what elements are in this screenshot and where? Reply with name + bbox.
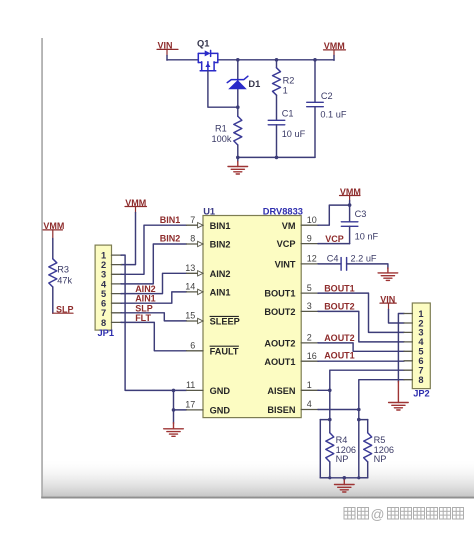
svg-text:C2: C2 xyxy=(321,91,333,101)
svg-text:NP: NP xyxy=(374,454,387,464)
node junction R5 bottom xyxy=(357,476,360,479)
svg-text:BISEN: BISEN xyxy=(267,405,295,415)
wire R4/R5 bottom rail xyxy=(320,477,367,479)
svg-text:FAULT: FAULT xyxy=(210,346,239,356)
resistor R2 xyxy=(276,60,278,68)
capacitor C1 xyxy=(268,119,285,121)
node junction ground stub xyxy=(343,476,347,480)
U1 right pin stubs with numbers xyxy=(301,215,318,410)
JP1 pin numbers 1-8 xyxy=(101,251,107,328)
node junction VMM/C3 xyxy=(348,203,352,207)
wire AISEN up to JP2-7 xyxy=(330,370,404,390)
svg-text:3: 3 xyxy=(101,270,106,280)
capacitor C3 xyxy=(349,205,351,222)
wire top rail Q1 drain to VMM xyxy=(218,59,334,61)
wire AISEN down to R4 xyxy=(329,390,331,419)
wire AISEN pin 1 junction xyxy=(318,389,330,391)
svg-text:Q1: Q1 xyxy=(197,39,209,49)
diode D1 (zener) xyxy=(227,76,248,89)
svg-text:AOUT2: AOUT2 xyxy=(324,333,355,343)
capacitor C4 xyxy=(340,258,342,271)
svg-text:C3: C3 xyxy=(355,209,367,219)
node junction R5 top xyxy=(357,418,361,422)
svg-text:GND: GND xyxy=(210,386,231,396)
node junction AISEN xyxy=(328,389,332,393)
svg-text:SLP: SLP xyxy=(135,303,153,313)
svg-text:R4: R4 xyxy=(336,435,348,445)
wire GND junction down to pin 17 xyxy=(173,390,175,410)
svg-text:BOUT1: BOUT1 xyxy=(324,284,355,294)
wire VCP pin 9 to C3 xyxy=(318,243,350,245)
wire D1 branch xyxy=(237,60,239,107)
resistor R3 xyxy=(49,259,57,287)
JP2 pin stubs xyxy=(404,314,412,380)
node junction gate/D1/R1 xyxy=(236,105,240,109)
wire JP1-8 to FAULT (U1 pin 6) xyxy=(121,322,187,350)
svg-text:47k: 47k xyxy=(57,276,72,286)
wire top rail VIN to Q1 source xyxy=(167,59,198,61)
ground below R4 R5 xyxy=(343,478,345,481)
svg-text:C1: C1 xyxy=(282,109,294,119)
svg-text:VM: VM xyxy=(282,221,296,231)
wire C1 bottom xyxy=(276,125,278,158)
svg-text:DRV8833: DRV8833 xyxy=(263,206,303,216)
svg-text:BOUT2: BOUT2 xyxy=(264,307,295,317)
node junction BISEN xyxy=(357,408,361,412)
svg-text:6: 6 xyxy=(101,299,106,309)
svg-text:AIN1: AIN1 xyxy=(210,288,231,298)
U1 right pin names xyxy=(264,221,296,415)
wire JP1-6 to AIN1 (U1 pin 14) xyxy=(121,292,187,303)
svg-text:3: 3 xyxy=(418,328,423,338)
svg-text:13: 13 xyxy=(185,263,195,273)
svg-text:2.2 uF: 2.2 uF xyxy=(351,254,377,264)
svg-text:1: 1 xyxy=(101,251,106,261)
svg-text:8: 8 xyxy=(101,318,106,328)
svg-text:4: 4 xyxy=(307,399,312,409)
svg-text:BOUT1: BOUT1 xyxy=(264,289,295,299)
svg-text:9: 9 xyxy=(307,233,312,243)
node junction C1 bottom xyxy=(275,156,279,160)
U1 left pin stubs with numbers xyxy=(185,215,203,410)
ground below JP2 xyxy=(397,382,399,403)
svg-text:AOUT2: AOUT2 xyxy=(264,339,295,349)
svg-text:BIN2: BIN2 xyxy=(210,240,231,250)
svg-text:2: 2 xyxy=(101,260,106,270)
wire VINT pin 12 to C4 xyxy=(318,263,341,265)
connector JP1 xyxy=(95,245,111,330)
node junction rail at C2 xyxy=(313,58,317,62)
U1 left pin names xyxy=(210,221,240,416)
svg-text:JP1: JP1 xyxy=(98,328,115,338)
node junction rail at R2 xyxy=(275,58,279,62)
resistor R5 with parallel wire xyxy=(359,419,368,421)
node junction R1 bottom xyxy=(236,156,240,160)
transistor Q1 (P-MOSFET) xyxy=(198,50,218,70)
svg-text:R2: R2 xyxy=(283,75,295,85)
svg-text:BOUT2: BOUT2 xyxy=(324,301,355,311)
svg-text:AOUT1: AOUT1 xyxy=(264,357,295,367)
svg-text:10 uF: 10 uF xyxy=(282,129,306,139)
wire VIN to JP2-2 xyxy=(388,303,390,310)
svg-text:100k: 100k xyxy=(212,134,232,144)
svg-text:VCP: VCP xyxy=(325,234,344,244)
svg-text:17: 17 xyxy=(185,400,195,410)
resistor R1 xyxy=(237,107,239,116)
wire VMM stub right xyxy=(349,196,351,202)
svg-text:7: 7 xyxy=(101,308,106,318)
wire AOUT2 pin 2 to JP2-5 xyxy=(318,343,404,351)
wire C4 to ground xyxy=(347,264,388,269)
wire Q1 gate down and right to node xyxy=(208,71,238,107)
svg-text:7: 7 xyxy=(190,215,195,225)
svg-text:8: 8 xyxy=(418,375,423,385)
ground at C4 xyxy=(387,268,389,273)
wire BOUT1 pin 5 to JP2-3 xyxy=(318,293,404,332)
svg-text:R1: R1 xyxy=(215,123,227,133)
wire VM pin 10 to VMM xyxy=(318,205,350,225)
svg-text:3: 3 xyxy=(307,301,312,311)
svg-text:AIN2: AIN2 xyxy=(135,284,156,294)
svg-text:12: 12 xyxy=(307,254,317,264)
wire BISEN pin 4 junction xyxy=(318,409,359,411)
svg-text:R3: R3 xyxy=(57,265,69,275)
svg-text:NP: NP xyxy=(336,454,349,464)
svg-text:1: 1 xyxy=(283,86,288,96)
svg-text:10: 10 xyxy=(307,215,317,225)
op-amp U1 DRV8833 IC body xyxy=(203,216,301,418)
svg-text:0.1 uF: 0.1 uF xyxy=(320,109,346,119)
svg-text:6: 6 xyxy=(190,341,195,351)
JP1 pin stubs xyxy=(112,255,122,322)
svg-text:AIN1: AIN1 xyxy=(135,294,156,304)
svg-text:BIN1: BIN1 xyxy=(160,215,181,225)
wire VMM to R3 xyxy=(52,230,54,239)
svg-text:BIN2: BIN2 xyxy=(160,234,181,244)
wire VMM down to JP1 pin 2 xyxy=(135,207,137,214)
svg-text:11: 11 xyxy=(186,380,195,390)
svg-text:5: 5 xyxy=(101,289,106,299)
wire JP1-4 to BIN2 (U1 pin 8) xyxy=(121,244,187,284)
node junction GND wire pin 17 xyxy=(172,408,176,412)
capacitor C2 xyxy=(314,60,316,102)
node junction R4 top xyxy=(328,418,332,422)
wire AOUT1 pin 16 to JP2-6 xyxy=(318,360,404,362)
svg-text:R5: R5 xyxy=(374,435,386,445)
svg-text:16: 16 xyxy=(307,351,317,361)
svg-text:AISEN: AISEN xyxy=(267,386,295,396)
wire VIN stub xyxy=(166,49,168,56)
watermark 知乎 @雕爷学编程 xyxy=(344,508,464,520)
svg-text:8: 8 xyxy=(190,234,195,244)
bottom page border line xyxy=(41,497,474,499)
JP2 pin numbers 1-8 xyxy=(418,309,424,385)
svg-text:VINT: VINT xyxy=(275,260,296,270)
connector JP2 xyxy=(412,303,430,389)
bottom shading gradient of page xyxy=(43,458,474,497)
svg-text:2: 2 xyxy=(307,333,312,343)
resistor R4 with parallel wire xyxy=(320,419,330,421)
svg-text:10 nF: 10 nF xyxy=(355,231,379,241)
node junction R4 bottom xyxy=(328,476,331,479)
svg-text:14: 14 xyxy=(185,282,195,292)
svg-text:FLT: FLT xyxy=(135,313,151,323)
svg-text:JP2: JP2 xyxy=(413,388,430,398)
svg-text:7: 7 xyxy=(418,366,423,376)
ground below R1 xyxy=(237,157,239,162)
wire JP1-3 to BIN1 (U1 pin 7) xyxy=(121,225,187,274)
wire JP1-5 to AIN2 (U1 pin 13) xyxy=(121,273,187,293)
wire JP2-1 to ground xyxy=(398,314,404,383)
svg-text:4: 4 xyxy=(101,279,107,289)
svg-text:AOUT1: AOUT1 xyxy=(324,350,355,360)
wire BISEN down to R5 xyxy=(358,410,360,420)
node junction rail at D1 xyxy=(236,58,240,62)
svg-text:U1: U1 xyxy=(203,206,215,216)
node junction GND wire pin 11 xyxy=(172,389,176,393)
svg-text:SLEEP: SLEEP xyxy=(210,317,240,327)
wire JP1-7 to SLEEP (U1 pin 15) xyxy=(121,313,187,321)
wire BOUT2 pin 3 to JP2-4 xyxy=(318,311,404,342)
left page border line xyxy=(41,38,43,498)
wire VMM stub (top) xyxy=(333,50,335,56)
svg-text:GND: GND xyxy=(210,406,231,416)
svg-text:15: 15 xyxy=(185,311,195,321)
wire BISEN up to JP2-8 xyxy=(359,380,404,410)
svg-text:VCP: VCP xyxy=(277,239,296,249)
svg-text:5: 5 xyxy=(307,283,312,293)
svg-text:1: 1 xyxy=(307,380,312,390)
svg-text:D1: D1 xyxy=(248,79,260,89)
svg-text:AIN2: AIN2 xyxy=(210,269,231,279)
svg-text:BIN1: BIN1 xyxy=(210,221,231,231)
wire bottom rail of input stage xyxy=(238,156,315,158)
wire JP1-1 to GND pin 11 xyxy=(121,255,187,390)
ground below U1 GND pins xyxy=(173,410,175,423)
svg-text:1: 1 xyxy=(418,309,423,319)
svg-text:C4: C4 xyxy=(327,254,339,264)
svg-text:@: @ xyxy=(371,507,385,522)
svg-text:5: 5 xyxy=(418,347,423,357)
